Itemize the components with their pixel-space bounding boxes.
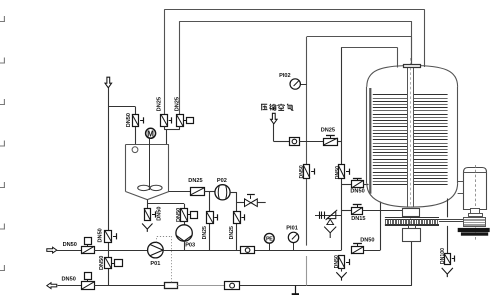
- svg-text:DN50: DN50: [62, 277, 76, 283]
- svg-text:DN50: DN50: [299, 165, 305, 178]
- svg-text:PE: PE: [266, 237, 273, 243]
- svg-text:DN50: DN50: [99, 256, 105, 270]
- svg-text:DN50: DN50: [335, 166, 341, 179]
- svg-text:DN25: DN25: [229, 226, 235, 239]
- svg-text:DN50: DN50: [98, 228, 104, 242]
- svg-text:DN15: DN15: [351, 216, 365, 222]
- svg-text:PI01: PI01: [286, 225, 298, 231]
- svg-text:DN50: DN50: [176, 208, 182, 222]
- svg-text:DN25: DN25: [321, 128, 335, 134]
- svg-text:M: M: [147, 129, 154, 138]
- svg-text:P01: P01: [150, 261, 160, 267]
- svg-text:DN50: DN50: [360, 238, 374, 244]
- svg-text:DN50: DN50: [334, 255, 340, 268]
- svg-text:P03: P03: [185, 242, 195, 248]
- svg-text:DN25: DN25: [188, 178, 202, 184]
- svg-text:DN50: DN50: [157, 206, 163, 220]
- svg-text:PI02: PI02: [279, 73, 291, 79]
- svg-text:DN50: DN50: [63, 242, 77, 248]
- svg-text:DN25: DN25: [157, 97, 163, 111]
- svg-text:DN100: DN100: [440, 248, 446, 264]
- svg-text:DN50: DN50: [126, 113, 132, 127]
- svg-text:DN50: DN50: [350, 189, 364, 195]
- svg-text:DN25: DN25: [174, 97, 180, 111]
- svg-text:P02: P02: [217, 178, 227, 184]
- svg-text:DN25: DN25: [202, 226, 208, 239]
